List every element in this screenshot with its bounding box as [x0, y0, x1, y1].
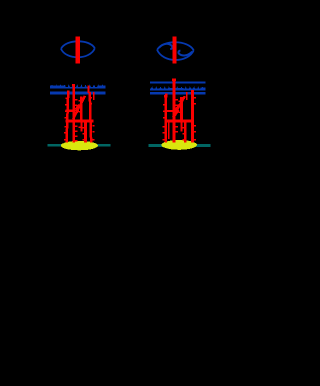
right eye outline (blue lens, disrupted) — [157, 42, 194, 60]
V3b below crossbar — [181, 122, 183, 132]
V2 ticks — [75, 99, 77, 100]
V3b below crossbar — [80, 122, 82, 132]
stub near V1 below crossbar — [168, 122, 170, 139]
V2 top cap — [72, 84, 75, 86]
V5 stub — [186, 92, 188, 100]
crossbar — [165, 119, 194, 122]
V1 vertical filament — [164, 93, 167, 142]
right apical top membrane (solid blue) — [150, 81, 205, 83]
right eye inner detached arc right — [178, 51, 192, 56]
V1 ticks — [65, 98, 67, 99]
V4 ticks — [194, 97, 196, 98]
V6 ticks — [83, 127, 85, 128]
V3 ticks — [78, 100, 80, 101]
V1 ticks — [163, 104, 165, 105]
left eye red bar — [76, 37, 81, 64]
bridge V1-V2 — [66, 110, 75, 112]
right dotted membrane solid mid segment — [169, 88, 184, 90]
zigzag squiggle mid — [75, 105, 79, 116]
left apical dotted membrane: base line — [50, 87, 106, 89]
V2 ticks — [176, 99, 178, 100]
left apical membrane solid start cap — [50, 86, 66, 89]
zigzag squiggle mid — [175, 105, 179, 116]
right dotted membrane solid end cap — [201, 88, 206, 91]
left actin bundle — [64, 84, 95, 142]
right actin bundle — [162, 78, 195, 142]
V2 vertical filament — [72, 85, 75, 143]
right eye inner detached arc left — [159, 44, 173, 49]
right cell body (yellow ellipse) — [161, 140, 197, 150]
V1 vertical filament (slight slant) — [65, 91, 69, 143]
V4 ticks — [90, 97, 92, 98]
right dotted membrane: base line — [150, 89, 205, 91]
V2 top cap — [172, 78, 176, 81]
right basolateral membrane (solid blue) — [150, 92, 205, 95]
right eye red bar — [172, 37, 176, 64]
left apical dotted membrane: sawtooth — [51, 84, 104, 87]
V2 tall vertical filament — [173, 79, 176, 143]
left basal lamina (teal line) — [47, 144, 110, 147]
left basolateral membrane (solid blue) — [50, 92, 106, 95]
V3b tick — [79, 127, 81, 128]
diagonal strut — [72, 96, 86, 119]
V1 foot — [164, 95, 166, 98]
V6 below crossbar — [184, 122, 187, 143]
left eye outline (blue lens) — [61, 41, 95, 57]
right basal lamina (teal line) — [149, 144, 211, 147]
V4 vertical filament — [191, 90, 194, 143]
V3 ticks — [179, 101, 181, 102]
V5 stub right of lines — [93, 92, 95, 100]
left cell body (yellow ellipse) — [61, 141, 98, 150]
bridge V1-V2 — [165, 110, 173, 112]
V6 below crossbar — [84, 122, 87, 143]
V6 ticks — [183, 127, 185, 128]
right dotted membrane: sawtooth — [151, 86, 204, 89]
diagonal strut — [172, 96, 186, 117]
V3 vertical filament (short, centre) — [80, 97, 83, 122]
V3 vertical filament (short, centre) — [180, 97, 183, 122]
crossbar — [65, 119, 93, 122]
left apical membrane solid end cap — [97, 86, 105, 89]
V4 vertical filament (bent top) — [87, 85, 89, 93]
